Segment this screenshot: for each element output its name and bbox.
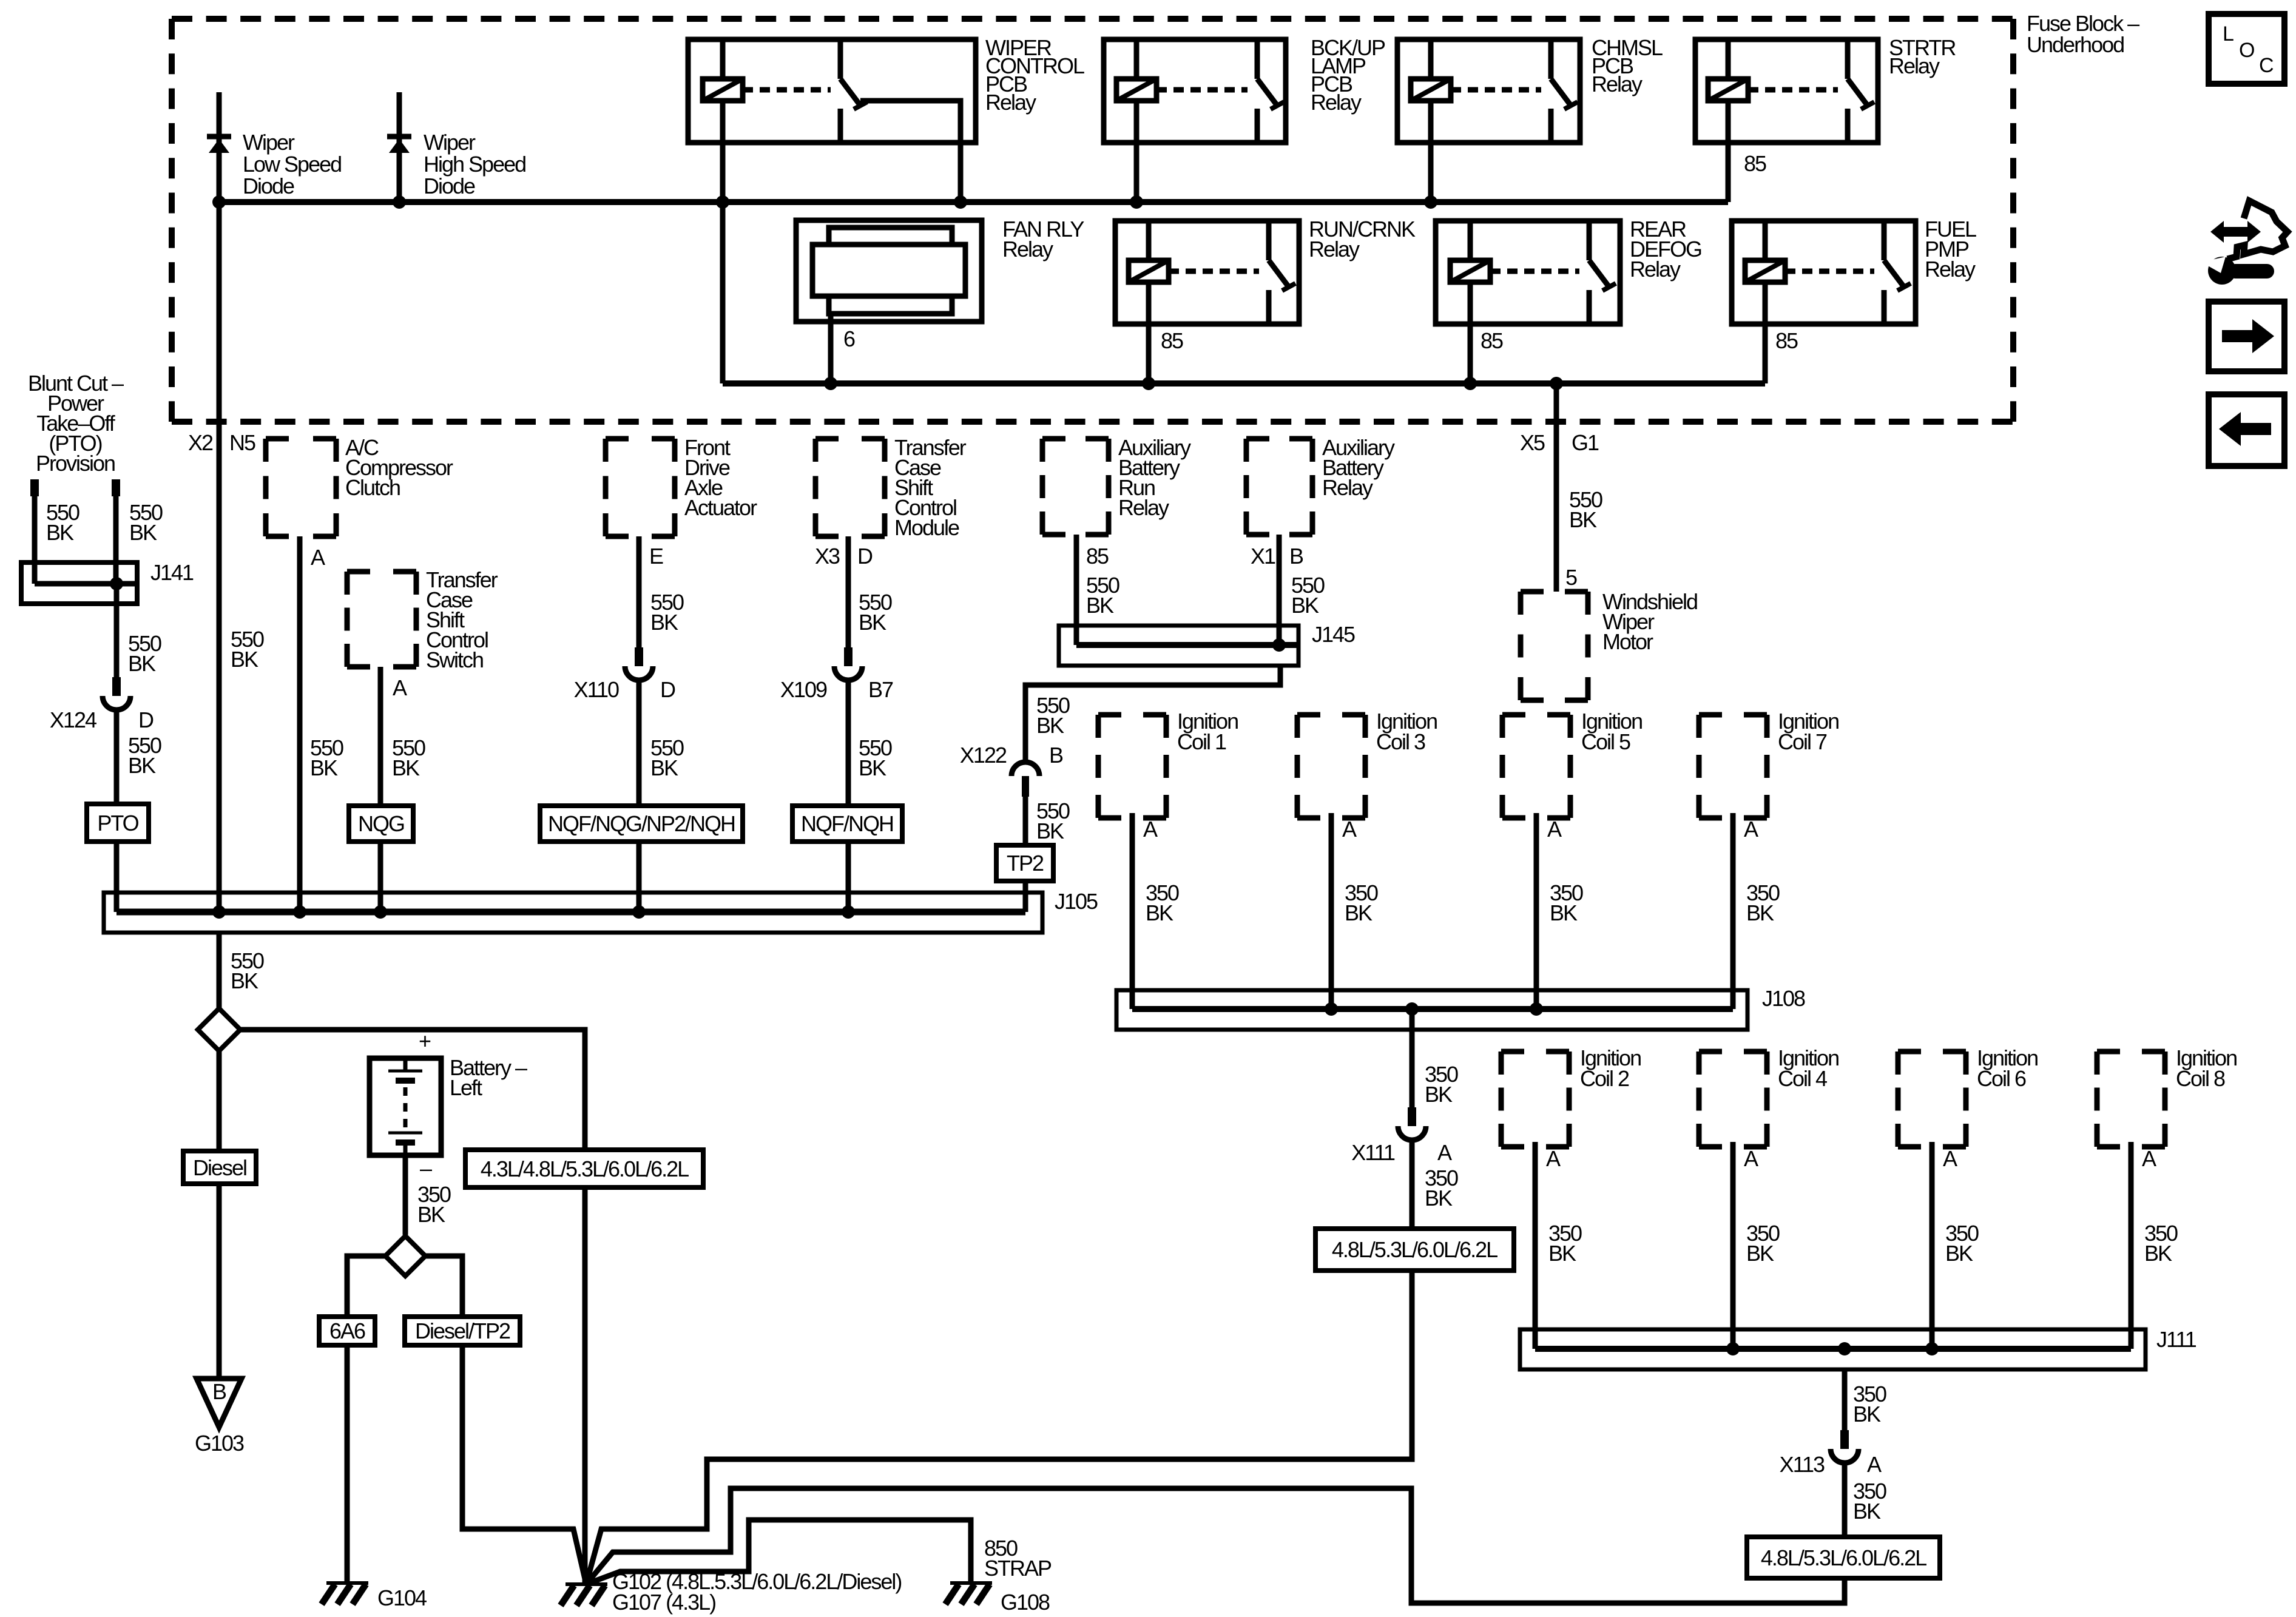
svg-text:BK: BK: [1425, 1082, 1453, 1107]
svg-text:4.3L/4.8L/5.3L/6.0L/6.2L: 4.3L/4.8L/5.3L/6.0L/6.2L: [481, 1156, 689, 1181]
ground G102/G107: [566, 1582, 607, 1586]
svg-text:A: A: [1943, 1146, 1957, 1171]
wire: X124 to PTO: [114, 709, 120, 804]
svg-text:BK: BK: [1548, 1241, 1576, 1266]
wire: J111 to X113: [1842, 1369, 1848, 1430]
junction low-speed-diode / X2: [212, 195, 226, 209]
transfer case shift control switch box: [347, 569, 416, 575]
option box Diesel: [183, 1151, 256, 1184]
svg-text:Relay: Relay: [1889, 53, 1940, 78]
svg-text:Coil 1: Coil 1: [1177, 729, 1226, 754]
svg-text:BK: BK: [1853, 1402, 1881, 1426]
svg-text:Coil 3: Coil 3: [1376, 729, 1425, 754]
svg-text:N5: N5: [229, 430, 255, 455]
wire: X113 to 4.8L box: [1842, 1462, 1848, 1537]
svg-text:D: D: [138, 707, 154, 732]
wire: J141 to X124: [114, 584, 120, 677]
option box PTO: [87, 804, 149, 842]
svg-text:A: A: [1744, 817, 1758, 842]
relay U5 FAN RLY: internal bracket: [829, 228, 952, 314]
junction chmsl relay coil: [1424, 195, 1437, 209]
wire: ignition coil 5 pin A to J108: [1534, 813, 1539, 1009]
svg-text:BK: BK: [650, 610, 678, 635]
relay U1 WIPER CONTROL PCB Relay: box: [688, 39, 976, 143]
wire: A/C clutch pin A to J105: [297, 536, 303, 912]
svg-text:A: A: [1547, 817, 1562, 842]
junction J145: [1272, 638, 1286, 652]
svg-text:6A6: 6A6: [329, 1318, 365, 1343]
ignition coil 7 box: [1699, 712, 1767, 718]
connector X113: [1840, 1430, 1849, 1449]
wire: Diesel box to G103: [217, 1184, 222, 1379]
wire: right blunt cut to J141: [113, 496, 119, 584]
wire: NQF/NQG/NP2/NQH to J105: [636, 842, 642, 912]
svg-text:Diesel: Diesel: [193, 1155, 246, 1180]
splice diamond left: [198, 1008, 240, 1051]
wire: battery minus to diamond2: [403, 1155, 408, 1235]
svg-text:Relay: Relay: [1311, 90, 1362, 115]
junction J105 A/C: [293, 905, 306, 919]
svg-text:BK: BK: [859, 755, 886, 780]
svg-text:BK: BK: [1345, 900, 1373, 925]
svg-text:BK: BK: [231, 647, 258, 672]
junction high-speed-diode: [393, 195, 406, 209]
option box 4.3L/4.8L/5.3L/6.0L/6.2L: [465, 1150, 703, 1187]
option box Diesel/TP2: [405, 1317, 520, 1345]
blunt cut stub right: [112, 479, 120, 496]
svg-text:Motor: Motor: [1602, 629, 1653, 654]
ground G104: [326, 1581, 368, 1585]
wiper low speed diode wire: [217, 92, 222, 202]
svg-text:G107 (4.3L): G107 (4.3L): [612, 1590, 715, 1615]
svg-text:NQF/NQH: NQF/NQH: [801, 811, 893, 836]
splice pack J141: [21, 562, 137, 604]
svg-text:X110: X110: [574, 677, 619, 702]
svg-text:Relay: Relay: [1925, 257, 1976, 282]
svg-text:STRAP: STRAP: [984, 1556, 1052, 1581]
wire: 6A6 to ground G104: [345, 1345, 350, 1583]
wire: J145 output to X122: [1025, 666, 1280, 763]
LOC reference box: [2209, 14, 2284, 84]
option box 4.8L/5.3L/6.0L/6.2L (X111): [1315, 1229, 1514, 1271]
relay U2 BCK/UP LAMP PCB Relay: box: [1104, 39, 1286, 143]
wire: ignition coil 2 pin A to J111: [1533, 1142, 1538, 1349]
wire: NQF/NQH to J105: [846, 842, 851, 912]
junction J105 NQF/NQG/NP2/NQH: [632, 905, 646, 919]
svg-text:BK: BK: [859, 610, 886, 635]
relay U8 FUEL PMP Relay: coil pin wire: [1763, 221, 1768, 260]
relay U5 FAN RLY: pin 6 wire: [828, 314, 834, 383]
wire: axle actuator pin E to X110: [636, 536, 642, 647]
relay U3 CHMSL PCB Relay: box: [1397, 39, 1580, 143]
ignition coil 5 box: [1502, 712, 1570, 718]
wire: diamond to battery/4.3L vertical: [240, 1030, 585, 1584]
relay U5 FAN RLY: coil box: [812, 245, 965, 296]
junction J141: [110, 577, 123, 590]
splice pack J108: [1116, 990, 1747, 1030]
svg-text:BK: BK: [1569, 507, 1597, 532]
svg-text:A: A: [1867, 1452, 1882, 1477]
svg-text:A: A: [2142, 1146, 2156, 1171]
svg-text:PTO: PTO: [97, 811, 138, 836]
junction rear defog pin 85: [1464, 377, 1477, 390]
relay U7 REAR DEFOG Relay: coil pin wire: [1468, 221, 1473, 260]
forward arrow box: [2209, 302, 2284, 371]
wire: ignition coil 7 pin A to J108: [1730, 813, 1736, 1009]
relay U1 WIPER CONTROL PCB Relay: switch: [838, 39, 843, 79]
junction J108 coil 5: [1530, 1002, 1543, 1016]
wire: rear defog pin 85 to bus2: [1468, 282, 1473, 383]
wire: top distribution bus: [219, 199, 1728, 205]
svg-text:B: B: [212, 1379, 226, 1404]
svg-text:J111: J111: [2156, 1327, 2196, 1352]
svg-text:BK: BK: [1146, 900, 1173, 925]
svg-text:Relay: Relay: [1309, 237, 1360, 262]
battery box: [370, 1058, 441, 1155]
ignition coil 4 box: [1699, 1049, 1767, 1055]
svg-text:D: D: [660, 677, 675, 702]
junction J108 X111 drop: [1405, 1002, 1419, 1016]
splice pack J145: [1059, 626, 1298, 666]
svg-text:G104: G104: [377, 1585, 427, 1610]
junction wiper control relay coil: [716, 195, 729, 209]
relay U4 STRTR Relay: coil: [1708, 79, 1748, 101]
splice diamond battery: [385, 1236, 425, 1276]
svg-text:Coil 2: Coil 2: [1580, 1066, 1629, 1091]
splice pack J111: [1520, 1329, 2146, 1369]
wire: TC switch pin A to NQG: [378, 667, 383, 806]
ignition coil 1 box: [1098, 712, 1166, 718]
wire: Diesel/TP2 to G102 merge: [462, 1345, 586, 1584]
svg-text:Coil 6: Coil 6: [1977, 1066, 2026, 1091]
option box 4.8L/5.3L/6.0L/6.2L (X113): [1747, 1537, 1940, 1578]
junction J105 X2: [212, 905, 226, 919]
relay U2 BCK/UP LAMP PCB Relay: coil: [1116, 79, 1156, 101]
wire: NQG to J105: [378, 842, 383, 912]
svg-text:BK: BK: [310, 755, 338, 780]
svg-text:G108: G108: [1001, 1590, 1050, 1615]
svg-text:A: A: [393, 675, 407, 700]
svg-text:BK: BK: [392, 755, 420, 780]
relay U8 FUEL PMP Relay: coil-switch dashed link: [1785, 269, 1874, 274]
wire: ignition coil 3 pin A to J108: [1329, 813, 1334, 1009]
svg-text:Relay: Relay: [1118, 495, 1169, 520]
wire: J105 to splice diamond: [217, 933, 222, 1008]
svg-text:Wiper: Wiper: [243, 130, 295, 155]
svg-text:Actuator: Actuator: [684, 495, 757, 520]
relay U7 REAR DEFOG Relay: box: [1436, 221, 1620, 324]
relay U6 RUN/CRNK Relay: switch: [1266, 221, 1272, 260]
svg-text:Coil 7: Coil 7: [1778, 729, 1827, 754]
wire: chmsl relay coil to bus: [1428, 101, 1434, 202]
ignition coil 2 box: [1501, 1049, 1569, 1055]
wire: ignition coil 6 pin A to J111: [1930, 1142, 1935, 1349]
wire: second distribution bus: [723, 380, 1765, 387]
svg-text:BK: BK: [2144, 1241, 2172, 1266]
front drive axle actuator box: [606, 436, 675, 442]
relay U6 RUN/CRNK Relay: coil: [1129, 260, 1169, 282]
svg-text:B7: B7: [868, 677, 893, 702]
wire: left blunt cut to J141: [32, 496, 38, 584]
relay U2 BCK/UP LAMP PCB Relay: coil-switch dashed link: [1156, 87, 1248, 93]
relay U1 WIPER CONTROL PCB Relay: coil pin wire: [720, 39, 726, 79]
connector X109: [844, 647, 853, 666]
relay U1 WIPER CONTROL PCB Relay: coil: [703, 79, 743, 101]
connector X110: [635, 647, 643, 666]
wire: TP2 to J105: [1023, 881, 1028, 912]
relay U2 BCK/UP LAMP PCB Relay: coil pin wire: [1134, 39, 1140, 79]
svg-text:G1: G1: [1572, 430, 1599, 455]
wire: diamond2 right branch to Diesel/TP2: [425, 1256, 462, 1317]
svg-text:Coil 5: Coil 5: [1581, 729, 1630, 754]
svg-text:Clutch: Clutch: [345, 475, 400, 500]
wire: ignition coil 8 pin A to J111: [2129, 1142, 2134, 1349]
junction wiper control relay switch output: [954, 195, 967, 209]
svg-text:Relay: Relay: [985, 90, 1036, 115]
svg-text:Coil 4: Coil 4: [1778, 1066, 1827, 1091]
svg-text:J105: J105: [1055, 889, 1098, 914]
junction J105 NQF/NQH: [842, 905, 855, 919]
svg-text:85: 85: [1775, 328, 1798, 353]
svg-text:J141: J141: [150, 560, 194, 585]
svg-text:BK: BK: [1746, 1241, 1774, 1266]
svg-text:C: C: [2259, 54, 2274, 77]
wire: bck/up relay coil to bus: [1134, 101, 1140, 202]
ground G108: [950, 1581, 992, 1585]
relay U4 STRTR Relay: box: [1695, 39, 1878, 143]
wire: 850 strap from G108 to G102 merge (staircase 3): [586, 1520, 971, 1584]
svg-text:X1: X1: [1251, 544, 1275, 569]
wire: X111 to 4.8L box: [1410, 1139, 1415, 1229]
wiper low speed diode: [207, 134, 231, 140]
wiper high speed diode: [387, 134, 411, 140]
junction J111 coil 6: [1925, 1342, 1939, 1355]
svg-text:A: A: [1143, 817, 1158, 842]
svg-text:BK: BK: [128, 753, 156, 778]
relay U3 CHMSL PCB Relay: coil pin wire: [1428, 39, 1434, 79]
svg-text:Diode: Diode: [424, 174, 475, 198]
relay U3 CHMSL PCB Relay: switch: [1548, 39, 1554, 79]
svg-text:Provision: Provision: [36, 451, 115, 476]
relay U2 BCK/UP LAMP PCB Relay: switch: [1255, 39, 1260, 79]
svg-text:BK: BK: [650, 755, 678, 780]
svg-text:J108: J108: [1762, 986, 1805, 1011]
junction J111 X113 drop: [1838, 1342, 1851, 1355]
junction J105 NQG: [374, 905, 387, 919]
svg-text:A: A: [311, 545, 325, 570]
relay U3 CHMSL PCB Relay: coil: [1411, 79, 1451, 101]
junction run/crnk pin 85: [1142, 377, 1155, 390]
relay U7 REAR DEFOG Relay: coil-switch dashed link: [1490, 269, 1579, 274]
svg-text:NQF/NQG/NP2/NQH: NQF/NQG/NP2/NQH: [548, 811, 735, 836]
svg-text:A: A: [1437, 1140, 1452, 1165]
wire: X110 to NQF/NQG/NP2/NQH: [636, 680, 642, 806]
wire: 4.8L box to G102 merge (staircase 1): [586, 1271, 1412, 1584]
relay U6 RUN/CRNK Relay: coil pin wire: [1146, 221, 1152, 260]
svg-text:Diesel/TP2: Diesel/TP2: [415, 1318, 510, 1343]
junction J111 coil 4: [1726, 1342, 1740, 1355]
svg-text:BK: BK: [1945, 1241, 1973, 1266]
svg-text:6: 6: [843, 326, 855, 351]
transfer case shift control module box: [815, 436, 885, 442]
svg-text:BK: BK: [1425, 1186, 1453, 1210]
svg-text:Underhood: Underhood: [2027, 32, 2124, 57]
svg-text:TP2: TP2: [1007, 851, 1044, 876]
relay U4 STRTR Relay: coil pin wire: [1726, 39, 1731, 79]
relay U7 REAR DEFOG Relay: switch: [1587, 221, 1592, 260]
wire: wiper relay coil to bus: [720, 101, 726, 202]
svg-text:D: D: [857, 544, 873, 569]
option box 6A6: [319, 1317, 375, 1345]
wire: X2 vertical (left main): [217, 202, 222, 912]
svg-text:A: A: [1546, 1146, 1561, 1171]
relay U1 WIPER CONTROL PCB Relay: switch output wire: [860, 101, 961, 202]
wire: aux battery run relay pin 85 into J145: [1074, 535, 1079, 645]
connector X122: [1011, 762, 1039, 776]
svg-text:Low Speed: Low Speed: [243, 152, 341, 177]
svg-text:NQG: NQG: [358, 811, 404, 836]
option box NQF/NQH: [792, 806, 902, 842]
windshield wiper motor box: [1521, 589, 1588, 595]
wire: J108 to X111: [1410, 1009, 1415, 1107]
relay U8 FUEL PMP Relay: switch: [1882, 221, 1887, 260]
svg-text:BK: BK: [231, 968, 258, 993]
svg-text:85: 85: [1086, 544, 1109, 569]
wire: strtr relay pin 85 to bus: [1726, 101, 1731, 202]
svg-text:E: E: [649, 544, 663, 569]
svg-text:Switch: Switch: [426, 647, 483, 672]
svg-text:BK: BK: [1550, 900, 1578, 925]
connector X111: [1408, 1107, 1416, 1126]
svg-text:Coil 8: Coil 8: [2176, 1066, 2225, 1091]
svg-text:Relay: Relay: [1002, 237, 1053, 262]
svg-text:BK: BK: [128, 651, 156, 676]
svg-text:X111: X111: [1351, 1140, 1395, 1165]
svg-text:5: 5: [1565, 565, 1577, 590]
svg-text:X3: X3: [815, 544, 840, 569]
wire: X5 G1 drop from bus2: [1554, 383, 1559, 592]
wire: ignition coil 4 pin A to J111: [1730, 1142, 1736, 1349]
svg-text:X124: X124: [50, 707, 96, 732]
svg-text:85: 85: [1481, 328, 1503, 353]
svg-text:BK: BK: [46, 520, 74, 545]
svg-text:Relay: Relay: [1592, 72, 1643, 96]
svg-text:High Speed: High Speed: [424, 152, 525, 177]
option box NQG: [349, 806, 413, 842]
auxiliary battery run relay box: [1042, 436, 1109, 442]
svg-text:BK: BK: [417, 1202, 445, 1227]
svg-text:Relay: Relay: [1322, 475, 1373, 500]
ignition coil 3 box: [1297, 712, 1365, 718]
svg-text:L: L: [2223, 22, 2234, 46]
A/C compressor clutch box: [266, 436, 336, 442]
svg-text:BK: BK: [1746, 900, 1774, 925]
junction J108 coil 3: [1325, 1002, 1338, 1016]
svg-text:BK: BK: [1853, 1499, 1881, 1524]
svg-text:X122: X122: [960, 743, 1007, 768]
wire: fuel pmp pin 85 to bus2: [1763, 282, 1768, 383]
auxiliary battery relay box: [1246, 436, 1312, 442]
junction X5 G1 drop: [1550, 377, 1563, 390]
junction fan rly pin 6: [824, 377, 837, 390]
connector X124: [112, 677, 121, 696]
svg-text:G103: G103: [195, 1431, 244, 1456]
svg-text:B: B: [1289, 544, 1303, 569]
wire: 4.8L box to G102 merge (staircase 2): [586, 1488, 1845, 1603]
hand-with-wrench service icon: [2227, 201, 2288, 259]
ignition coil 6 box: [1898, 1049, 1966, 1055]
relay U4 STRTR Relay: coil-switch dashed link: [1748, 87, 1838, 93]
relay U8 FUEL PMP Relay: box: [1732, 221, 1916, 324]
svg-text:A: A: [1744, 1146, 1758, 1171]
svg-text:85: 85: [1744, 151, 1766, 176]
junction bck/up relay coil: [1130, 195, 1143, 209]
svg-text:Left: Left: [450, 1075, 482, 1100]
relay U4 STRTR Relay: switch: [1845, 39, 1851, 79]
wiper high speed diode wire: [397, 92, 402, 202]
Fuse Block - Underhood dashed border: [172, 16, 2013, 22]
wire: run/crnk pin 85 to bus2: [1146, 282, 1152, 383]
blunt cut stub left: [30, 479, 39, 496]
ground G103 triangle: [197, 1379, 241, 1427]
svg-text:Module: Module: [894, 515, 959, 540]
wire: X109 to NQF/NQH: [846, 680, 851, 806]
relay U1 WIPER CONTROL PCB Relay: coil-switch dashed link: [743, 87, 831, 93]
back arrow box: [2209, 394, 2284, 466]
svg-text:A: A: [1342, 817, 1357, 842]
option box NQF/NQG/NP2/NQH: [540, 806, 743, 842]
svg-text:B: B: [1049, 743, 1063, 768]
svg-text:X109: X109: [780, 677, 827, 702]
svg-text:4.8L/5.3L/6.0L/6.2L: 4.8L/5.3L/6.0L/6.2L: [1761, 1545, 1926, 1570]
relay U5 FAN RLY: box: [796, 220, 982, 322]
wire: diamond2 left branch to 6A6: [347, 1256, 386, 1317]
relay U3 CHMSL PCB Relay: coil-switch dashed link: [1451, 87, 1541, 93]
svg-text:–: –: [420, 1156, 432, 1181]
relay U6 RUN/CRNK Relay: box: [1115, 221, 1299, 324]
svg-text:BK: BK: [1086, 593, 1114, 618]
svg-text:O: O: [2239, 39, 2254, 62]
svg-text:Diode: Diode: [243, 174, 294, 198]
relay U8 FUEL PMP Relay: coil: [1745, 260, 1785, 282]
relay U6 RUN/CRNK Relay: coil-switch dashed link: [1169, 269, 1259, 274]
svg-text:4.8L/5.3L/6.0L/6.2L: 4.8L/5.3L/6.0L/6.2L: [1332, 1237, 1497, 1262]
wire: X122 to TP2: [1023, 797, 1028, 845]
wire: ignition coil 1 pin A to J108: [1130, 813, 1135, 1009]
svg-text:Relay: Relay: [1630, 257, 1681, 282]
wire: TC module X3-D to X109: [846, 536, 851, 647]
wire: PTO to J105: [114, 842, 120, 912]
relay U7 REAR DEFOG Relay: coil: [1450, 260, 1490, 282]
svg-text:BK: BK: [129, 520, 157, 545]
wire: aux battery relay X1-B into J145: [1277, 535, 1282, 645]
svg-text:BK: BK: [1036, 819, 1064, 843]
ignition coil 8 box: [2097, 1049, 2165, 1055]
svg-text:X2: X2: [188, 430, 213, 455]
wire: diamond to Diesel box: [217, 1051, 222, 1151]
svg-text:BK: BK: [1291, 593, 1319, 618]
svg-text:+: +: [419, 1028, 431, 1053]
option box TP2: [996, 845, 1053, 881]
splice pack J105: [104, 893, 1042, 933]
svg-text:Wiper: Wiper: [424, 130, 476, 155]
svg-text:X113: X113: [1780, 1452, 1825, 1477]
svg-text:J145: J145: [1312, 622, 1355, 647]
svg-text:BK: BK: [1036, 713, 1064, 738]
svg-text:85: 85: [1161, 328, 1183, 353]
wire: bus1 to bus2 drop: [720, 202, 726, 383]
svg-text:X5: X5: [1520, 430, 1545, 455]
